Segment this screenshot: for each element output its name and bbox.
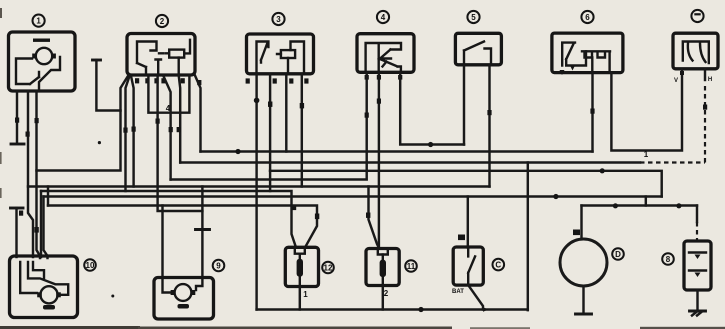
scan smudge left edge: [0, 8, 2, 198]
connector T symbol between box1 and box2: [93, 60, 121, 111]
wire: B7 down to battery top (part dashed): [696, 206, 698, 242]
generator D circle: [560, 239, 607, 286]
bus Bc y=205.5 from B4 link to box 12: [48, 206, 319, 248]
switch blade inside box C: [468, 247, 475, 285]
ground bar under box1: [11, 143, 24, 146]
label circle 10: [84, 259, 96, 271]
component box 9 (motor): [154, 278, 214, 320]
battery cells inside box 8: [689, 253, 706, 278]
wire: B7 down to generator top: [573, 206, 582, 240]
wire: box3 pin4 down to bus B4: [300, 74, 304, 187]
bus B4b y=191 to box 12: [41, 191, 296, 248]
svg-text:2: 2: [384, 289, 389, 298]
wire: box3 pin3 down to bus B1: [285, 74, 287, 152]
svg-text:12: 12: [324, 264, 333, 273]
wire: box3 pin1 down to bottom bus B8: [254, 74, 260, 310]
svg-text:1: 1: [303, 290, 308, 299]
bracket wire linking box2 pins 148 and 189: [148, 76, 189, 114]
ink speck: [98, 141, 101, 144]
wire: box2 fan f2 down to bus B4b: [123, 76, 129, 191]
label circle 12: [322, 262, 334, 274]
component box 4 (regulator): [357, 34, 414, 73]
component box C (ignition switch): [453, 247, 483, 285]
wire: link from B4 down to B9 and into box 9: [196, 187, 210, 279]
label circle 5: [467, 11, 479, 23]
component box 7 (switch pair): [673, 33, 718, 69]
component box 11 (fuse): [366, 249, 399, 286]
wire: box7 H pin dashed down to bus B2 (drawn with B2): [703, 69, 707, 110]
ink speck lower left: [111, 295, 114, 298]
svg-text:4: 4: [381, 13, 386, 22]
label circle 6: [581, 11, 593, 23]
label circle 3: [272, 13, 284, 25]
svg-text:5: 5: [471, 13, 476, 22]
svg-text:BAT: BAT: [452, 289, 464, 295]
svg-text:3: 3: [276, 15, 281, 24]
wire: link box3 pin2 down to bus B4b: [269, 171, 271, 191]
label circle 11: [405, 260, 417, 272]
wire: box2 pin 163 slant down to bus B5: [163, 76, 173, 180]
wire: box2 fan f3 down to bus B4: [131, 76, 136, 187]
label circle 7: [691, 10, 703, 22]
component box 6 (relay): [552, 33, 623, 73]
component box 5 (switch): [455, 33, 501, 65]
svg-text:D: D: [615, 250, 621, 259]
svg-text:10: 10: [86, 261, 95, 270]
svg-text:C: C: [495, 261, 501, 270]
svg-text:8: 8: [666, 255, 671, 264]
wire: box7 V pin small mark: [680, 71, 684, 75]
connector T-bar left (to box 10): [11, 208, 24, 257]
wire stub below box 12 with label 1: [300, 287, 308, 310]
wire: link bus B6 to bus B7: [645, 197, 647, 206]
motor M1 symbol inside box 1: [16, 39, 60, 92]
wire: box1 pin down to bus B4 then into box10: [26, 91, 34, 257]
wire: box5 right pin down to bus B4: [487, 65, 491, 187]
wire: bus y=170.5 from box1 wire up to box2 fan: [37, 76, 129, 171]
scan smudge bottom edge: [0, 326, 725, 329]
component box 10 (motor): [10, 256, 78, 318]
wire: box6 pin 592.5 up from bus B1: [590, 73, 594, 152]
component box 3 (relay): [247, 34, 314, 74]
label circle 4: [377, 11, 389, 23]
pin labels under box 3: [246, 78, 309, 83]
motor symbol inside box 10: [20, 262, 68, 310]
bus B1 y=151.5 from box2 to box6: [201, 149, 593, 154]
wire: battery bottom stem to ground: [690, 290, 706, 316]
switch blade inside box 5: [464, 42, 491, 65]
wire: stem from bus B4b into box 10: [40, 191, 42, 257]
svg-text:11: 11: [407, 262, 416, 271]
bus B7 y=205.5 generator/battery bus: [582, 203, 698, 208]
svg-text:1: 1: [644, 150, 649, 159]
fuse element inside box 12: [295, 247, 305, 286]
wire: box2 fan-right down to bus B1: [195, 76, 201, 152]
bottom bus B8 y=310: [257, 307, 528, 312]
pin marks under box 4: [365, 75, 403, 80]
svg-text:H: H: [708, 77, 712, 83]
wire: box5 left pin down to U-link: [463, 65, 465, 145]
wire: link from B4 down to bus Bc: [47, 187, 49, 206]
wire: box C riser from bus B6: [458, 197, 468, 248]
bus B6 y=196.5 main middle bus: [44, 194, 662, 199]
component box 2 (relay): [127, 34, 195, 76]
wire stub below box 11 with label 2: [383, 286, 389, 310]
label circle D: [612, 248, 624, 260]
wire: box2 pin 178 down to bus B2: [177, 76, 181, 163]
label circle C: [493, 259, 505, 271]
fuse element inside box 11: [378, 249, 388, 286]
wire: box2 pin 157.6 down, east at y=211 (to box 9): [156, 76, 203, 212]
svg-text:6: 6: [585, 13, 590, 22]
relay contact and coil inside box 6: [560, 43, 611, 75]
double contact symbol inside box 7: [683, 42, 709, 64]
wire: box6 pin 611 to box7 V pin, y=150.5: [611, 69, 682, 159]
wire: box C bottom slant to bottom bus: [468, 285, 483, 309]
relay contact and coil inside box 3: [257, 42, 305, 74]
wire: bus B6 left stem into box 10: [44, 197, 48, 259]
regulator symbol inside box 4: [366, 43, 401, 72]
svg-text:9: 9: [216, 262, 221, 271]
wire: box1 pin to ground: [15, 91, 19, 143]
wire: box3 pin2 down to bus B3: [268, 74, 272, 171]
bus B4 y=186.5 long bus: [28, 185, 490, 187]
pin labels under box 2: [135, 78, 201, 85]
bus B2 y=162.5 from box2 pin to far right: [180, 85, 705, 163]
U-link wire y=144.5 between box4 and box5: [400, 74, 464, 148]
label circle 8: [662, 253, 674, 265]
component box 1 (wiper motor): [9, 32, 76, 91]
wire: riser from bottom bus B8 up to bus B2: [527, 163, 529, 311]
wire: generator bottom stem to ground: [576, 286, 592, 314]
svg-text:V: V: [674, 78, 678, 84]
svg-text:2: 2: [160, 17, 165, 26]
motor symbol inside box 9: [163, 278, 203, 309]
component box 8 (battery): [684, 241, 711, 290]
label circle 2: [156, 15, 168, 27]
relay contact and coil inside box 2: [137, 40, 190, 74]
bus B5 y=179.5 from box2 area to box4 pin: [171, 74, 369, 180]
wire: box1 pin down into box 10: [34, 91, 40, 258]
component box 12 (fuse): [285, 247, 318, 286]
svg-text:1: 1: [36, 17, 41, 26]
label circle 1: [33, 15, 45, 27]
wire: second feed from bus B4 slanting into box 11: [366, 187, 379, 249]
wire: box4 pin 378.9 down to box 11: [377, 74, 381, 248]
wire: stem from bus Bc down into box 9: [161, 206, 163, 279]
label circle 9: [213, 260, 225, 272]
bus B3 y=170.8 from box3 across to right elbow: [270, 168, 662, 196]
